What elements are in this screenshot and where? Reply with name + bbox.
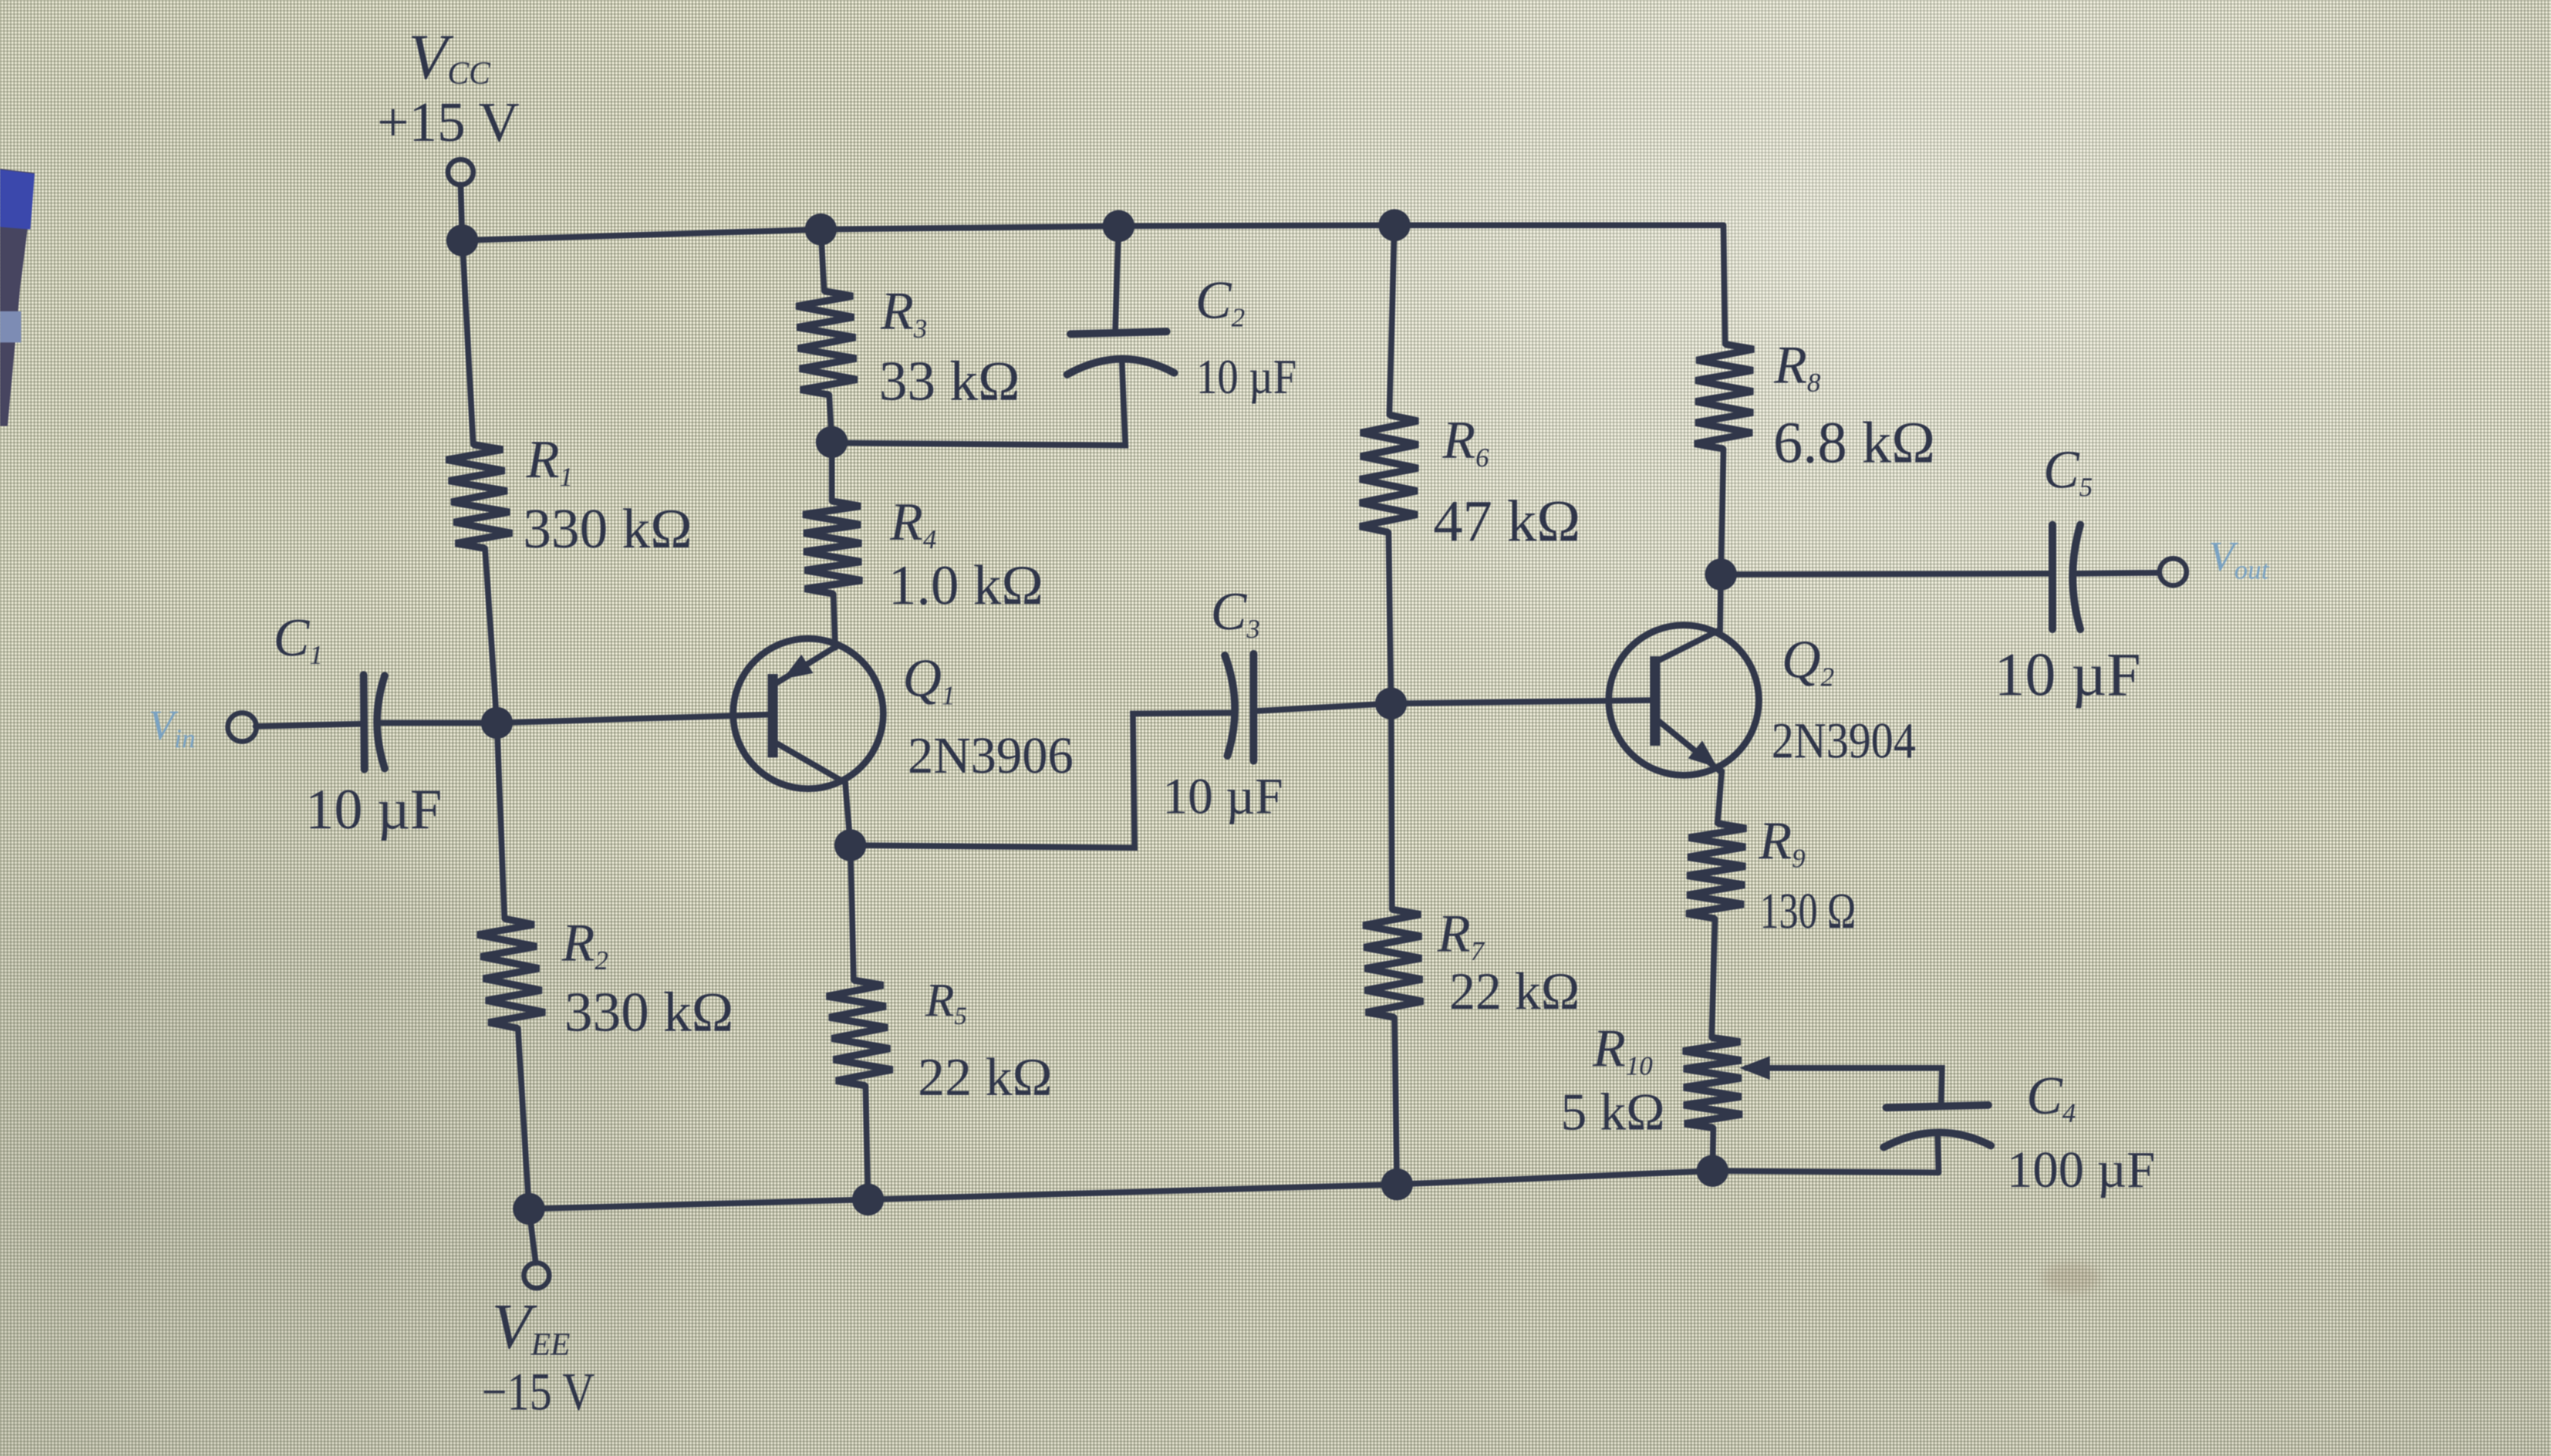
junction node Vcc rail xyxy=(446,224,478,256)
svg-text:2N3904: 2N3904 xyxy=(1772,713,1916,768)
svg-text:R6: R6 xyxy=(1442,410,1489,472)
resistor R2 330 k xyxy=(477,919,545,1028)
resistor R3 33 k xyxy=(796,291,857,395)
wire R2 bottom lead xyxy=(518,1028,529,1209)
wire C2 bottom elbow to node B xyxy=(832,363,1125,445)
capacitor C5 plate straight xyxy=(2049,525,2057,629)
svg-text:Vout: Vout xyxy=(2209,532,2270,585)
wire C5 to Vout xyxy=(2077,573,2159,574)
wire Q1 collector drop xyxy=(845,783,850,845)
wire bottom supply rail xyxy=(529,1171,1939,1209)
terminal Vin xyxy=(228,713,256,741)
wire VEE stub xyxy=(529,1209,536,1263)
junction node E (Q1 collector/R5/C3) xyxy=(834,829,866,861)
wire R6 bottom lead xyxy=(1389,532,1391,704)
svg-text:R9: R9 xyxy=(1758,811,1805,873)
wire R7 bottom lead xyxy=(1394,1017,1397,1184)
transistor Q2 circle xyxy=(1609,625,1759,775)
wire node D to C5 xyxy=(1721,574,2050,574)
wire C1 to node A xyxy=(381,720,497,726)
transistor Q1 collector diagonal xyxy=(774,741,845,783)
transistor Q2 emitter arrow (NPN) xyxy=(1688,741,1718,768)
svg-text:10 µF: 10 µF xyxy=(1196,349,1297,404)
svg-text:33 kΩ: 33 kΩ xyxy=(879,350,1020,413)
resistor R8 6.8 k xyxy=(1695,344,1754,449)
svg-text:R7: R7 xyxy=(1437,903,1486,966)
transistor Q2 collector diagonal xyxy=(1657,630,1719,661)
capacitor C5 plate curved xyxy=(2073,525,2080,629)
svg-text:Vin: Vin xyxy=(148,701,195,753)
junction node B (R3/R4/C2) xyxy=(816,426,848,458)
svg-text:C5: C5 xyxy=(2043,439,2093,502)
resistor R6 47 k xyxy=(1360,415,1418,532)
wire R5 top lead xyxy=(850,845,854,980)
svg-text:R8: R8 xyxy=(1773,335,1820,397)
svg-text:5 kΩ: 5 kΩ xyxy=(1561,1084,1665,1141)
svg-text:R2: R2 xyxy=(561,913,608,975)
junction node R6 top xyxy=(1378,209,1410,241)
wire R9 to R10 xyxy=(1712,919,1715,1038)
svg-text:1.0 kΩ: 1.0 kΩ xyxy=(888,554,1044,617)
capacitor C4 plate curved xyxy=(1884,1132,1991,1147)
svg-text:C2: C2 xyxy=(1195,270,1245,332)
wire R4 top lead xyxy=(829,442,835,501)
resistor R5 22 k xyxy=(827,980,893,1086)
wire R3 top lead xyxy=(821,229,824,291)
junction node C (R6/R7/C3/Q2 base) xyxy=(1375,688,1407,720)
wire R1 top lead xyxy=(462,240,473,445)
svg-text:10 µF: 10 µF xyxy=(1162,768,1283,824)
resistor R1 330 k xyxy=(446,445,512,548)
junction node R3 top xyxy=(805,213,837,245)
svg-text:C4: C4 xyxy=(2026,1065,2076,1128)
junction node VEE rail xyxy=(513,1193,545,1225)
junction node C2 top xyxy=(1103,210,1135,242)
wire R6 top lead xyxy=(1389,225,1394,415)
capacitor C3 plate curved xyxy=(1225,655,1235,756)
wire R1 bottom lead xyxy=(485,548,497,723)
wire Q2 emitter drop xyxy=(1718,771,1722,823)
resistor R4 1.0 k xyxy=(803,501,862,594)
svg-text:R4: R4 xyxy=(889,492,936,554)
wire C4 bottom lead xyxy=(1938,1137,1939,1173)
svg-text:−15 V: −15 V xyxy=(482,1362,595,1421)
wire Q2 collector drop xyxy=(1720,574,1721,631)
resistor R9 130 xyxy=(1686,823,1746,919)
wire top supply rail xyxy=(462,225,1723,240)
svg-text:330 kΩ: 330 kΩ xyxy=(564,981,734,1043)
window edge artifact (top-left blue wedge) xyxy=(0,169,35,426)
svg-text:6.8 kΩ: 6.8 kΩ xyxy=(1773,411,1935,476)
wire node C to Q2 base xyxy=(1391,700,1655,704)
potentiometer R10 wiper arrow xyxy=(1739,1056,1770,1080)
svg-text:330 kΩ: 330 kΩ xyxy=(523,498,693,560)
wire R7 top lead xyxy=(1391,704,1392,909)
capacitor C1 plate straight xyxy=(364,675,364,769)
junction node R5 bottom xyxy=(852,1184,884,1216)
capacitor C2 plate curved xyxy=(1067,359,1174,375)
capacitor C3 plate straight xyxy=(1250,654,1258,761)
resistor R7 22 k xyxy=(1363,909,1423,1017)
svg-text:VCC: VCC xyxy=(408,22,491,93)
svg-text:R3: R3 xyxy=(880,281,927,343)
svg-text:Q1: Q1 xyxy=(903,648,955,710)
wire Q1 collector to C3 xyxy=(850,713,1234,848)
svg-text:130 Ω: 130 Ω xyxy=(1760,883,1856,939)
svg-text:10 µF: 10 µF xyxy=(1994,640,2141,709)
wire node A to Q1 base xyxy=(497,715,773,723)
svg-text:VEE: VEE xyxy=(492,1292,570,1362)
wire R5 bottom lead xyxy=(866,1086,868,1200)
svg-text:R10: R10 xyxy=(1592,1018,1653,1081)
wire R10 wiper to C4 xyxy=(1746,1068,1942,1104)
capacitor C1 plate curved xyxy=(377,676,385,768)
junction node R7 bottom xyxy=(1381,1168,1413,1200)
junction node D (R8/Q2 collector/C5) xyxy=(1705,558,1737,590)
resistor R10 5 k potentiometer xyxy=(1683,1038,1742,1128)
junction node R10 bottom xyxy=(1696,1155,1729,1187)
svg-text:C3: C3 xyxy=(1211,581,1260,644)
wire C2 top lead xyxy=(1115,226,1119,332)
wire R8 top lead xyxy=(1723,225,1725,344)
svg-text:10 µF: 10 µF xyxy=(305,777,442,841)
wire R3 bottom lead xyxy=(829,395,832,442)
transistor Q2 base bar xyxy=(1650,656,1660,746)
dust smudge xyxy=(2042,1263,2100,1293)
svg-text:C1: C1 xyxy=(273,607,323,670)
wire C3 to node C xyxy=(1254,704,1391,711)
svg-text:Q2: Q2 xyxy=(1782,629,1834,692)
terminal Vout xyxy=(2160,558,2187,585)
svg-text:47 kΩ: 47 kΩ xyxy=(1433,489,1581,554)
svg-text:R1: R1 xyxy=(526,429,573,492)
transistor Q2 emitter diagonal xyxy=(1657,720,1721,772)
transistor Q1 emitter diagonal xyxy=(776,647,835,683)
terminal VEE xyxy=(524,1263,549,1288)
transistor Q1 emitter arrow (PNP) xyxy=(783,655,813,679)
junction node A (C1/R1/R2/Q1 base) xyxy=(481,707,513,739)
svg-text:22 kΩ: 22 kΩ xyxy=(1449,963,1580,1021)
wire R10 bottom lead xyxy=(1712,1128,1713,1171)
transistor Q1 base bar xyxy=(768,674,778,758)
wire R8 bottom lead xyxy=(1721,449,1723,574)
wire R4 lead to Q1 emitter xyxy=(833,594,835,648)
svg-text:2N3906: 2N3906 xyxy=(908,728,1074,785)
capacitor C4 plate straight xyxy=(1886,1105,1988,1108)
wire Vin to C1 xyxy=(256,724,364,726)
svg-text:100 µF: 100 µF xyxy=(2007,1142,2155,1199)
wire R2 top lead xyxy=(497,723,504,919)
wire Vcc stub xyxy=(461,185,462,240)
terminal Vcc xyxy=(448,159,473,185)
svg-text:R5: R5 xyxy=(925,974,967,1030)
svg-text:22 kΩ: 22 kΩ xyxy=(918,1047,1053,1107)
svg-text:+15 V: +15 V xyxy=(377,91,520,154)
transistor Q1 circle xyxy=(733,639,883,789)
capacitor C2 plate straight xyxy=(1071,332,1167,334)
